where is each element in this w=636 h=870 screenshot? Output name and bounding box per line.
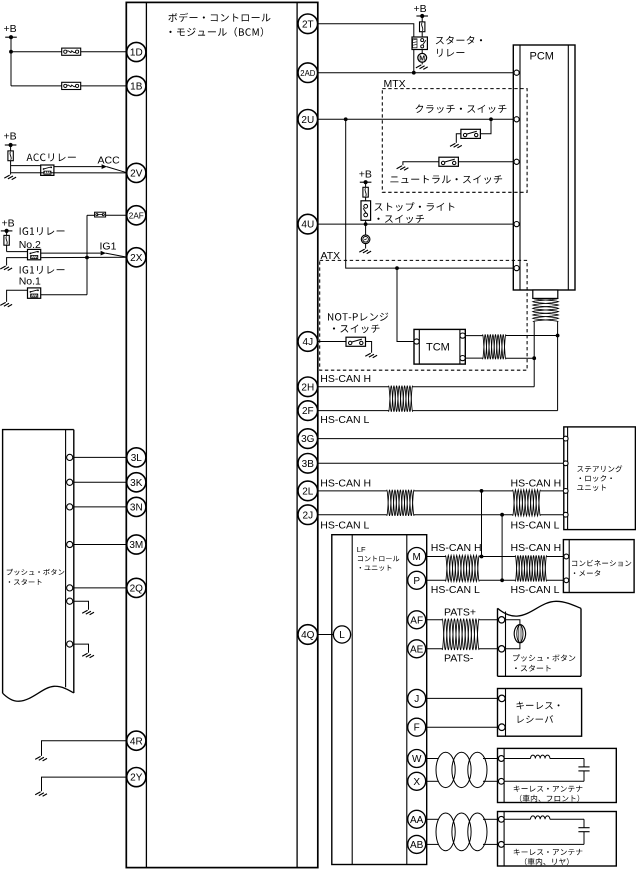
arrow ACC signal direction [102,164,107,169]
svg-text:HS-CAN L: HS-CAN L [431,584,480,596]
node IG1 bus junction [85,256,89,260]
wire AE (PATS-) [426,648,498,650]
pin antenna front (W) [498,756,504,762]
pin push-button start (PATS-) [498,646,504,652]
svg-text:+B: +B [2,217,15,229]
svg-text:ATX: ATX [321,250,341,262]
fuse (starter relay feed) [420,22,425,32]
svg-text:3B: 3B [302,459,315,470]
node junction to 1D [9,50,13,54]
wire push-button start to BCM 3M [74,544,137,546]
combination meter box [563,540,634,593]
svg-text:2F: 2F [302,406,314,417]
svg-text:M: M [419,55,425,62]
terminal 2X (BCM left) [127,248,146,267]
wire CAN L drop to LF unit [501,515,503,581]
terminal 2AD (BCM right) [298,63,318,83]
node junction CAN H to M wire [480,555,484,559]
pin antenna rear (AA) [498,816,504,822]
svg-text:HS-CAN L: HS-CAN L [511,520,560,532]
wire branch to TCM [397,268,414,341]
ground (4R) [35,756,47,761]
motor M (starter) [418,50,427,65]
pin TCM (left) [414,339,419,344]
relay IG1 No.1 [28,288,41,298]
pin connector (ground 1) [67,598,73,604]
antenna circuit front (inductor + capacitor) [504,755,589,781]
TCM box [414,329,465,364]
wire BCM 2T to starter relay [308,24,414,73]
svg-text:+B: +B [359,169,372,181]
push-button start box (right, with antenna) [498,601,582,676]
power +B feed (IG1 relay No.2) [1,217,15,251]
pin PCM (neutral switch) [514,159,519,164]
label コンビネーション・メータ [572,560,631,577]
fuse (2AF feed) [95,212,106,217]
pin AA (LF unit) [408,810,426,828]
pin steering lock (3B) [563,461,568,466]
terminal 3G (BCM right) [298,429,318,449]
svg-text:W: W [412,754,422,765]
wire to BCM 2AF [87,214,127,216]
wire W to keyless antenna front [426,758,498,760]
PCM bottom connector [533,290,558,298]
wire TCM twisted pair to PCM drop [465,336,557,359]
terminal 3B (BCM right) [298,454,318,474]
twisted pair (PATS) [442,619,479,650]
fuse F2 (1B feed) [62,82,81,89]
svg-text:2AD: 2AD [300,69,315,78]
wire push-button start to BCM 3L [74,456,137,458]
pin antenna front (X) [498,778,504,784]
keyless antenna rear box [498,812,617,867]
terminal 2H (BCM right) [298,377,318,397]
fuse F1 (1D feed) [62,48,81,55]
svg-text:L: L [339,630,345,641]
svg-text:4J: 4J [303,337,314,348]
node junction stop light to 4U wire [364,222,368,226]
pin PCM (ATX line) [514,266,519,271]
twisted pair (TCM) [483,334,506,359]
node junction CAN L to P wire [500,578,504,582]
pin connector (ground 2) [67,641,73,647]
terminal 4J (BCM right) [298,332,318,352]
wire CAN H drop to LF unit [481,491,483,557]
pin M (LF unit) [408,548,426,566]
svg-text:LF: LF [357,545,366,554]
BCM module box (body control module) [126,2,317,867]
switch NOT-P range [346,337,372,353]
terminal 2U (BCM right) [298,110,318,130]
pin W (LF unit) [408,750,426,768]
wire BCM 4Q to LF unit L [308,634,342,636]
steering lock unit box [564,427,636,530]
svg-text:AE: AE [410,644,424,655]
svg-text:HS-CAN H: HS-CAN H [431,542,482,554]
connector joint (stop light) [361,235,370,249]
svg-text:M: M [413,552,421,563]
pin L (LF unit) [333,626,350,643]
wire IG1 output to BCM 2X [41,253,128,258]
keyless receiver box [498,689,582,737]
svg-text:HS-CAN H: HS-CAN H [320,478,371,490]
svg-text:2T: 2T [302,19,314,30]
wire AA to keyless antenna rear [426,818,498,820]
twisted pair (2L/2J right) [513,490,541,516]
terminal 2T (BCM right) [298,14,318,34]
wire BCM 2Y to ground [42,777,137,791]
svg-text:3K: 3K [130,478,143,489]
wire +B to fuse to 1D [11,51,136,53]
fuse (stop light switch feed) [363,187,368,197]
label LF コントロール・ユニット [357,545,400,571]
pin combination meter (CAN L) [564,578,569,583]
svg-text:4R: 4R [130,736,143,747]
ground (2Y) [35,792,47,797]
pin connector (to 3K) [67,479,73,485]
svg-text:No.1: No.1 [19,276,41,288]
pin P (LF unit) [408,571,426,589]
wire AF (PATS+) [426,619,498,621]
dashed group box MTX [382,89,527,193]
twisted pair (M/P right) [515,555,546,581]
twisted pair (M/P left) [446,555,480,581]
wire relay No.1 output [41,294,87,296]
fuse (IG1 relay feed) [4,235,9,245]
wire 2U branch to PCM (ATX) [346,119,514,268]
svg-text:AF: AF [410,615,423,626]
pin F (LF unit) [408,718,426,736]
ground (IG1 relay No.2) [0,258,27,271]
label ACCリレー [27,153,76,161]
node junction TCM lower to PCM pair [532,356,536,360]
terminal 2Q (BCM left) [127,578,146,597]
wire M (HS-CAN H) to combination meter [426,556,564,558]
twisted pair (2L/2J left) [387,490,414,516]
svg-text:TCM: TCM [426,342,450,354]
PCM box [513,45,575,290]
pin AF (LF unit) [408,611,426,629]
svg-text:2J: 2J [303,510,314,521]
wire BCM 4J to NOT-P switch [308,341,346,343]
ground (neutral switch) [397,166,409,171]
svg-text:PATS-: PATS- [444,652,474,664]
svg-text:+B: +B [4,23,17,35]
svg-text:PCM: PCM [530,51,554,63]
pin steering lock (CAN L) [563,512,568,517]
node junction TCM upper to PCM pair [556,334,560,338]
terminal 1D (BCM left) [127,42,146,61]
terminal 4Q (BCM right) [298,625,318,645]
label ニュートラル・スイッチ [390,175,502,184]
svg-text:AA: AA [410,815,424,826]
pin antenna rear (AB) [498,842,504,848]
svg-text:1D: 1D [130,48,143,59]
pin TCM (right lower) [460,356,465,361]
twisted pair (2H/2F) [389,386,413,412]
svg-text:2Q: 2Q [130,584,144,595]
svg-text:+B: +B [4,131,17,143]
relay IG1 No.2 [28,249,41,259]
relay starter (スタータ・リレー) [412,37,427,50]
svg-text:HS-CAN L: HS-CAN L [511,584,560,596]
wire BCM 2J (HS-CAN L) [308,514,564,516]
svg-text:1B: 1B [130,82,143,93]
pin keyless receiver (F) [499,724,506,731]
label キーレス・アンテナ（車内、フロント） [514,786,583,803]
svg-text:2L: 2L [302,487,314,498]
label クラッチ・スイッチ [416,104,507,113]
svg-text:3L: 3L [131,453,143,464]
antenna circuit rear (inductor + capacitor) [504,816,589,845]
wire F to keyless receiver [426,726,498,728]
wire push-button start ground 2 [74,644,94,658]
label スタータ・リレー [436,36,482,57]
pin connector (to 3N) [67,504,73,510]
svg-text:IG1: IG1 [100,240,117,252]
wire BCM 4U to PCM [308,223,514,225]
label プッシュ・ボタン・スタート (left) [7,569,65,585]
wire BCM 2U to PCM [308,118,514,120]
node junction 2U branch (clutch switch) [489,117,493,121]
power +B feed (ACC relay) [4,131,17,173]
svg-text:3G: 3G [301,434,315,445]
label IG1リレー No.2 [19,227,65,251]
terminal 2V (BCM left) [127,163,146,182]
svg-text:HS-CAN H: HS-CAN H [511,542,562,554]
pin connector (to 3M) [67,541,73,547]
label BCM [168,13,270,37]
svg-text:PATS+: PATS+ [444,606,476,618]
wire +B to ACC relay coil [11,165,41,167]
svg-text:2X: 2X [130,253,143,264]
wire push-button start to BCM 3N [74,506,137,508]
svg-text:2Y: 2Y [130,773,143,784]
pin steering lock (3G) [563,436,568,441]
terminal 3K (BCM left) [127,473,146,492]
pin PCM (4U) [514,222,519,227]
node junction TCM branch [395,266,399,270]
node junction 2U branch (ATX) [344,117,348,121]
svg-text:2U: 2U [301,115,314,126]
wire J to keyless receiver [426,697,498,699]
svg-text:ACC: ACC [98,155,121,167]
wire ACC relay output to BCM 2V [11,167,128,173]
pin PCM (2U) [514,117,519,122]
pin connector (to 2Q) [67,585,73,591]
svg-text:2H: 2H [301,382,314,393]
svg-text:X: X [413,777,420,788]
wire IG1 bus vertical [86,215,88,294]
svg-text:4Q: 4Q [301,630,315,641]
pin steering lock (CAN H) [563,489,568,494]
svg-text:AB: AB [410,840,424,851]
svg-text:HS-CAN H: HS-CAN H [511,478,562,490]
wire push-button start ground 1 [74,601,94,615]
svg-text:3M: 3M [129,540,143,551]
fuse (ACC relay feed) [8,151,13,161]
pin connector (to 3L) [67,454,73,460]
pin AE (LF unit) [408,640,426,658]
label キーレス・レシーバ [517,702,560,724]
label IG1リレー No.1 [19,266,65,288]
ground (IG1 relay No.1) [0,290,27,307]
label プッシュ・ボタン・スタート (right) [513,654,575,671]
switch clutch [456,119,491,143]
power +B feed (stop light switch) [359,169,372,201]
ground (NOT-P switch) [365,353,377,358]
wire BCM 2L (HS-CAN H) [308,490,564,492]
wire CAN H drop (PCM) [533,322,535,387]
wire CAN L drop (PCM) [557,322,559,411]
wire BCM 3G to steering lock unit [308,438,564,440]
terminal 1B (BCM left) [127,76,146,95]
pin J (LF unit) [408,689,426,707]
switch neutral [403,157,514,166]
power +B feed (top left) [4,23,17,86]
pin TCM (right upper) [460,333,465,338]
terminal 2F (BCM right) [298,401,318,421]
label NOT-Pレンジ・スイッチ [328,313,388,334]
antenna coil (push-button start) [505,620,526,649]
wire BCM 3B to steering lock unit [308,462,564,464]
node junction CAN H bus [480,489,484,493]
node junction starter relay to 2AD wire [412,71,416,75]
svg-text:HS-CAN L: HS-CAN L [320,414,369,426]
terminal 3N (BCM left) [127,497,146,516]
pin X (LF unit) [408,772,426,790]
wire +B to relay No.2 [7,251,28,253]
terminal 4R (BCM left) [127,731,146,750]
LF control unit box [332,535,427,865]
label ステアリング・ロック・ユニット [577,465,622,491]
twisted pair (PCM to CAN bus, vertical) [533,298,559,321]
push-button start unit box (left) [3,430,74,702]
relay ACC (ACCリレー) [41,165,54,175]
pin combination meter (CAN H) [564,554,569,559]
keyless antenna front box [498,748,617,802]
pin push-button start (PATS+) [498,617,504,623]
svg-text:F: F [414,723,420,734]
wire push-button start to BCM 2Q [74,587,137,589]
wire BCM 4R to ground [42,741,137,756]
label キーレス・アンテナ（車内、リヤ） [514,849,583,866]
coiled cable (AA/AB) [436,813,487,851]
svg-text:4U: 4U [301,220,314,231]
wire BCM 2AD to PCM [308,72,514,74]
pin keyless receiver (J) [499,695,506,702]
terminal 2J (BCM right) [298,505,318,525]
svg-text:J: J [414,694,419,705]
power +B feed (starter relay) [414,3,429,37]
svg-text:2AF: 2AF [129,212,144,221]
terminal 3L (BCM left) [127,448,146,467]
terminal 2L (BCM right) [298,481,318,501]
wire BCM 2F (HS-CAN L) [308,410,558,412]
terminal 3M (BCM left) [127,535,146,554]
arrow IG1 signal direction [101,251,106,256]
wire +B to fuse to 1B [11,85,136,87]
wire AB to keyless antenna rear [426,843,498,845]
ground (starter motor) [416,65,428,70]
switch stop light (vertical) [361,201,371,235]
label ストップ・ライト・スイッチ [375,202,455,223]
ground (clutch switch) [450,143,462,148]
svg-text:P: P [413,576,420,587]
wire push-button start to BCM 3K [74,481,137,483]
ground (stop light switch) [359,249,371,254]
coiled cable (W/X) [436,752,487,787]
dashed group box ATX [320,260,527,370]
svg-text:HS-CAN H: HS-CAN H [320,373,371,385]
pin PCM (2AD) [514,70,519,75]
wire BCM 2H (HS-CAN H) [308,386,534,388]
ground (ACC relay) [4,173,16,180]
pin AB (LF unit) [408,835,426,853]
terminal 2AF (BCM left) [127,206,146,225]
svg-text:+B: +B [414,3,427,15]
wire P (HS-CAN L) to combination meter [426,579,564,581]
svg-text:3N: 3N [130,503,143,514]
svg-text:2V: 2V [130,169,143,180]
node junction CAN L bus [500,513,504,517]
wire X to keyless antenna front [426,780,498,782]
terminal 4U (BCM right) [298,214,318,234]
terminal 2Y (BCM left) [127,768,146,787]
svg-text:HS-CAN L: HS-CAN L [320,520,369,532]
